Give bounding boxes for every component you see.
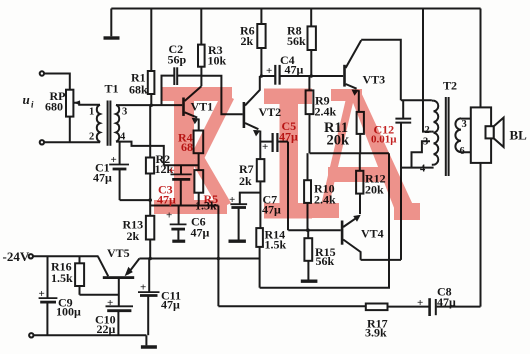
wire T2-3 link [412, 141, 431, 167]
resistor R15 [304, 230, 312, 279]
svg-text:47μ: 47μ [161, 298, 180, 312]
svg-text:VT4: VT4 [361, 227, 384, 241]
resistor R9 [306, 76, 314, 153]
wire T1-4 stub [116, 142, 164, 166]
capacitor C1 [109, 142, 129, 201]
node dot R13 junction [148, 257, 152, 261]
capacitor C11 [138, 259, 160, 336]
node dot R8 junction [310, 74, 313, 77]
svg-text:VT5: VT5 [107, 246, 130, 260]
svg-text:+: + [111, 154, 117, 166]
node dot feedback junction [217, 257, 221, 261]
resistor R8 [308, 9, 316, 77]
watermark KIA [154, 87, 420, 220]
node dot R10/R15 junction [306, 228, 310, 232]
svg-text:2k: 2k [239, 174, 252, 188]
svg-text:i: i [31, 100, 34, 110]
svg-text:20k: 20k [365, 183, 384, 197]
svg-text:2k: 2k [241, 34, 254, 48]
svg-text:2: 2 [89, 132, 94, 143]
resistor R6 [257, 9, 265, 77]
svg-text:47μ: 47μ [191, 226, 210, 240]
capacitor C2 [162, 67, 202, 105]
wire T2-4 stub [401, 167, 434, 169]
resistor R1 [148, 9, 155, 106]
capacitor C5 [260, 133, 288, 152]
resistor R17 [366, 304, 429, 311]
wire VT3 emitter to R11 [358, 90, 360, 112]
transistor VT4 [341, 215, 361, 260]
svg-text:+: + [39, 288, 45, 300]
wire rail drop to T2-2 [423, 9, 432, 132]
resistor R13 [146, 216, 154, 259]
resistor R12 [356, 153, 363, 214]
svg-text:100μ: 100μ [56, 305, 81, 319]
node dot C1 junction [148, 198, 152, 202]
svg-text:+: + [140, 282, 146, 294]
svg-text:68k: 68k [129, 83, 148, 97]
transformer T2 [432, 97, 461, 176]
wire VT3 collector loop [361, 40, 401, 100]
resistor R16 [75, 256, 84, 295]
resistor R11 [357, 112, 364, 153]
node dot C4 junction [260, 74, 263, 77]
wire feedback drop [217, 206, 219, 307]
svg-text:+: + [169, 165, 175, 177]
resistor R2 [146, 105, 154, 216]
wire C1 bottom to R2/R13 vertical [120, 199, 151, 201]
wire feedback bottom line [218, 305, 365, 307]
capacitor C4 [261, 65, 343, 85]
transformer T1 [97, 101, 119, 146]
svg-text:VT3: VT3 [363, 73, 386, 87]
wire top supply rail [111, 8, 480, 10]
wire T1-3 to VT1 base [116, 104, 182, 106]
svg-text:56k: 56k [316, 254, 335, 268]
svg-text:2.4k: 2.4k [315, 105, 337, 119]
svg-text:+: + [229, 194, 235, 206]
wire R3 node to VT2 base [201, 76, 242, 115]
svg-text:2k: 2k [127, 229, 140, 243]
svg-text:2: 2 [425, 125, 430, 136]
capacitor C12 [395, 100, 411, 122]
wire mid node line [150, 205, 218, 207]
svg-text:4: 4 [420, 164, 426, 175]
wire R16 to VT5 base [80, 294, 119, 296]
capacitor C9 [39, 256, 58, 335]
svg-text:4: 4 [120, 132, 126, 143]
transistor VT1 [182, 86, 201, 130]
svg-text:47μ: 47μ [437, 295, 456, 309]
ground (bottom main) [141, 335, 157, 347]
wire mid-rail junction line [310, 152, 389, 154]
transistor VT3 [343, 40, 361, 95]
wire -24V line [33, 255, 98, 257]
wire input bottom to T1-2 [44, 141, 100, 143]
wire T2 secondary to speaker [461, 119, 471, 153]
svg-text:56k: 56k [287, 34, 306, 48]
svg-text:VT2: VT2 [259, 105, 282, 119]
svg-text:22μ: 22μ [97, 322, 116, 336]
potentiometer RP [66, 90, 100, 143]
wire VT5 node line [139, 258, 259, 260]
svg-text:1.5k: 1.5k [265, 238, 287, 252]
svg-text:6: 6 [460, 146, 465, 157]
resistor R10 [304, 153, 311, 230]
svg-text:56p: 56p [168, 53, 187, 67]
capacitor C10 [106, 306, 134, 335]
svg-text:+: + [262, 141, 268, 153]
node base junction dot [150, 104, 153, 107]
capacitor C8 [430, 298, 481, 316]
capacitor C7 [229, 193, 261, 242]
svg-text:u: u [23, 92, 30, 107]
svg-text:1.5k: 1.5k [51, 271, 73, 285]
node terminal bottom-left [29, 333, 33, 337]
svg-text:10k: 10k [208, 54, 227, 68]
ground (R15) [301, 280, 318, 283]
wire R14 bottom loop [260, 153, 389, 288]
svg-text:3: 3 [423, 137, 428, 148]
svg-text:1: 1 [89, 107, 94, 118]
resistor R7 [257, 159, 265, 228]
svg-text:3: 3 [462, 119, 467, 130]
svg-text:BL: BL [510, 128, 528, 143]
capacitor C6 [170, 206, 187, 242]
wire bottom ground line [34, 334, 147, 336]
capacitor C3 [171, 165, 192, 205]
transistor VT2 [243, 76, 261, 159]
resistor R5 [194, 170, 203, 205]
svg-text:47μ: 47μ [285, 63, 304, 77]
resistor R4 [194, 131, 204, 171]
ground (top-left) [104, 9, 120, 39]
plus signs [39, 65, 424, 309]
wire input top to RP [44, 74, 70, 90]
svg-text:3: 3 [122, 107, 127, 118]
resistor R3 [198, 9, 205, 87]
svg-text:680: 680 [45, 100, 63, 114]
svg-text:+: + [107, 297, 113, 309]
svg-text:T1: T1 [105, 82, 119, 96]
wire C12/T2-4 drop [400, 123, 402, 260]
svg-text:+: + [417, 297, 423, 309]
resistor R14 [256, 228, 263, 288]
speaker BL [471, 9, 504, 307]
wire C5 to VT4 base drop [287, 142, 289, 231]
transistor VT5 [98, 257, 139, 307]
wire C12 top to T2 [401, 99, 432, 101]
node input terminal bottom [40, 140, 44, 144]
svg-text:47μ: 47μ [93, 171, 112, 185]
svg-text:3.9k: 3.9k [365, 326, 387, 340]
node input terminal top [40, 71, 44, 75]
svg-text:T2: T2 [443, 79, 457, 93]
wire VT4 base line [288, 229, 341, 231]
node terminal -24V [29, 254, 33, 258]
svg-text:-24V: -24V [3, 249, 30, 264]
wire VT4 emitter line [361, 259, 401, 261]
svg-text:+: + [266, 65, 272, 77]
wire C3/R4 junction line [164, 164, 199, 166]
